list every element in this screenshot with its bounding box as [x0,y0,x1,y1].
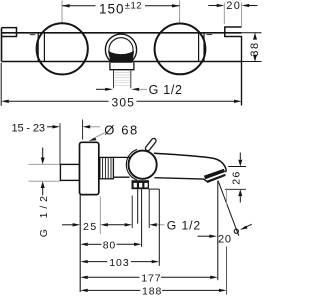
svg-text:150: 150 [99,2,125,17]
dimension 188 text [142,285,162,297]
dimension 15-23 extension lines [60,120,83,165]
wall connection pipe [60,164,79,180]
svg-text:188: 188 [142,285,162,297]
svg-text:Ø 68: Ø 68 [104,123,139,138]
svg-text:G 1/2: G 1/2 [167,219,201,233]
shower hose nipple [138,189,142,247]
aerator strip lower [207,174,226,183]
knurled union nut [100,157,114,178]
dimension 25 text [83,221,98,233]
dimension 150 ±12 text [99,0,142,16]
right seam tick [207,34,213,36]
right wall escutcheon box [225,27,242,37]
dimension 20 text [226,0,241,12]
escutcheon disc (side view) [80,142,99,194]
left end cap box [2,28,17,37]
wall thread G1/2 vertical dimension arrows [41,148,45,196]
dimension 26 extension lines [225,167,246,190]
center ring outer disc [105,34,136,65]
dimension 25 extension line right [99,196,101,233]
dimension 38 text (rotated) [249,41,261,56]
aerator strip upper [204,169,225,180]
svg-text:±12: ±12 [125,0,142,11]
wall reference line (side view) [79,195,81,292]
body cylinder outer collar arc [126,149,137,180]
right collar lines [199,33,204,62]
dimension 150 ±12 extension line left [61,1,63,23]
diameter 68 leader arrow [89,133,105,141]
dimension 26 text (rotated) [231,170,243,184]
dimension 26 line and arrows [238,153,242,203]
dimension 177 row [80,276,218,279]
svg-text:305: 305 [112,96,136,110]
wall connection pipe extension lines (gray) [28,164,60,181]
dimension 305 line and arrows [1,100,241,103]
right knob circle [155,24,206,75]
dimension 20 extension line left [223,3,225,25]
svg-text:26: 26 [231,170,243,184]
dimension 80 text [103,239,116,251]
dimension 38 line and arrows [253,33,257,62]
wall line (front view) [241,36,243,106]
dimension 188 extension line lower segment [226,247,228,295]
svg-text:15 - 23: 15 - 23 [12,123,46,135]
dimension 25 row [62,223,165,226]
left knob circle [37,23,88,74]
outlet thread label G1/2 arrows [96,88,147,91]
dimension 103 row [80,260,159,263]
dimension 15-23 text [12,123,46,135]
dimension 188 extension line upper segment [226,188,228,205]
dimension 177 text [141,272,161,284]
left collar lines [38,33,44,62]
spout [154,153,226,183]
svg-text:38: 38 [249,41,261,56]
diverter knurled nut below body [132,180,150,189]
svg-text:80: 80 [103,239,116,251]
svg-text:20: 20 [218,233,232,245]
spout angle vertical reference line [217,181,219,281]
temperature lever tab [148,141,154,149]
dimension 20 line and arrows [208,4,257,7]
dimension 103 text [109,257,130,269]
shower outlet flange [110,62,134,69]
dimension 150 ±12 extension line right [179,1,181,24]
center ring inner circle [109,38,133,62]
dimension 150 ±12 line and arrows [62,4,180,7]
svg-text:177: 177 [141,272,161,284]
center handle dark wedge [108,51,134,63]
dimension 188 row [80,289,226,292]
dimension 38 extension lines [242,33,262,62]
svg-text:G 1/2: G 1/2 [149,83,183,97]
dimension 103 extension line with ledge [149,189,160,266]
dimension 80 row [80,243,141,246]
shower outlet pipe with thread [114,70,131,89]
diameter 68 label text [104,123,139,138]
wall thread G1/2 text (rotated) [38,192,50,237]
angle 20deg text [218,229,238,245]
svg-text:103: 103 [109,257,130,269]
left seam tick [30,34,36,36]
body cylinder circle (side view) [129,151,157,179]
dimension 15-23 arrows [47,125,100,128]
dimension 20 extension line right (upper wall line) [241,3,243,27]
connector pipe to body [113,157,129,177]
spout angle slanted line [218,181,239,236]
dimension 305 text [112,96,136,110]
mixer body bar [2,28,242,62]
G1/2 extension lines (side view) [132,189,149,228]
svg-text:G 1/2: G 1/2 [38,192,50,237]
hose thread G1/2 text (side view) [167,219,201,233]
svg-text:25: 25 [83,221,98,233]
dimension 305 extension line left [0,63,2,106]
angle 20deg arrows [198,224,252,238]
outlet thread label G1/2 text [149,83,183,97]
svg-text:20: 20 [226,0,241,12]
